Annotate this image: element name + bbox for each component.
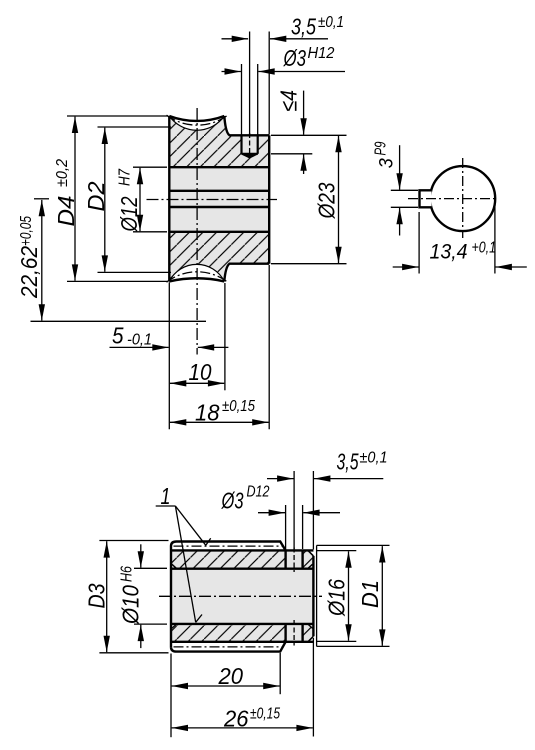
svg-text:Ø16: Ø16	[324, 579, 350, 617]
throat crescent white bottom	[169, 264, 224, 281]
svg-text:-0,1: -0,1	[127, 332, 152, 349]
dim Ø10 H6	[134, 544, 167, 648]
svg-text:±0,1: ±0,1	[318, 14, 344, 31]
thread band white bottom	[171, 642, 286, 652]
svg-text:Ø23: Ø23	[314, 182, 340, 219]
cross hole centerlines dashed	[293, 548, 295, 573]
svg-text:D12: D12	[247, 484, 270, 501]
svg-text:1: 1	[161, 483, 171, 509]
hatch band top	[171, 550, 313, 568]
svg-text:≤4: ≤4	[276, 90, 302, 112]
worm body gray silhouette	[171, 542, 313, 652]
dim Ø12 H7	[133, 167, 167, 232]
svg-text:P9: P9	[373, 141, 390, 155]
dim D1	[317, 545, 390, 646]
dim 20	[172, 653, 281, 694]
dim 3 P9	[391, 145, 418, 235]
dim D3	[99, 541, 168, 653]
dim D4 +-0,2	[67, 116, 168, 281]
svg-text:+0,1: +0,1	[472, 240, 497, 257]
throat pitch arc dash-dot bottom	[167, 272, 228, 282]
dim Ø16	[317, 551, 357, 642]
circle centerline horizontal	[408, 198, 498, 200]
dim Ø23	[271, 136, 347, 264]
dim D2	[98, 127, 172, 272]
svg-text:3,5: 3,5	[291, 14, 316, 40]
bore chamfer lines	[172, 564, 313, 628]
dim 18 +-0,15	[169, 265, 269, 429]
svg-text:H12: H12	[308, 45, 335, 62]
svg-text:5: 5	[112, 323, 124, 349]
svg-text:±0,2: ±0,2	[54, 159, 71, 187]
pitch dash-dot lines	[174, 545, 284, 547]
hatched band top	[169, 116, 269, 167]
svg-text:Ø10: Ø10	[118, 585, 144, 625]
dim Ø3 D12 bottom view	[258, 505, 340, 549]
bore chamfer voids gray	[171, 564, 177, 569]
circle centerline vertical	[462, 158, 464, 238]
svg-text:D4: D4	[53, 196, 79, 227]
svg-text:±0,15: ±0,15	[222, 398, 255, 415]
svg-text:18: 18	[195, 400, 220, 426]
wheel horizontal centerline	[147, 199, 278, 201]
worm axis centerline	[159, 595, 322, 597]
svg-text:±0,1: ±0,1	[360, 450, 388, 467]
dim 3,5 +-0,1 top	[222, 32, 329, 135]
hole centerline dashed	[249, 133, 251, 157]
wheel vertical centerline	[196, 108, 198, 355]
dim 22,62 +0,05	[31, 199, 207, 321]
svg-text:±0,15: ±0,15	[250, 706, 280, 723]
svg-text:10: 10	[189, 359, 212, 385]
throat pitch arc dash-dot top	[167, 115, 228, 125]
svg-text:D3: D3	[84, 583, 110, 608]
svg-text:3,5: 3,5	[337, 449, 359, 475]
svg-text:D1: D1	[357, 580, 383, 608]
svg-text:26: 26	[223, 706, 249, 732]
svg-text:H7: H7	[117, 168, 134, 186]
svg-text:H6: H6	[119, 566, 136, 582]
thread band white top	[171, 542, 286, 551]
cross hole top interior gray	[286, 550, 303, 568]
dim Ø3 H12	[222, 64, 346, 135]
drill hole Ø3 walls	[242, 135, 258, 157]
svg-text:22,62: 22,62	[16, 246, 42, 299]
svg-text:13,4: 13,4	[430, 240, 468, 264]
dim 13,4 +0,1	[393, 203, 527, 274]
svg-text:20: 20	[218, 663, 244, 689]
dim 10	[170, 283, 225, 390]
svg-text:D2: D2	[83, 181, 109, 211]
dim 26 +-0,15	[171, 638, 313, 737]
svg-text:+0,05: +0,05	[18, 216, 35, 246]
worm outline thick	[171, 542, 313, 652]
cross hole bottom interior gray	[286, 624, 303, 642]
svg-text:3: 3	[376, 158, 398, 168]
circle	[430, 166, 495, 231]
keyway slot	[420, 190, 432, 207]
svg-text:Ø3: Ø3	[283, 45, 306, 71]
gear body gray silhouette	[169, 116, 269, 281]
svg-text:Ø3: Ø3	[221, 488, 244, 514]
dim 3,5 +-0,1 bottom view	[267, 471, 383, 550]
body outline thick	[169, 116, 269, 281]
drill hole interior gray	[242, 135, 258, 157]
dim 5 -0,1	[110, 346, 229, 348]
hatched band bottom	[169, 232, 269, 282]
dim &lt;=4 depth	[271, 91, 347, 174]
hatch band bottom	[171, 624, 313, 642]
throat crescent white top	[169, 116, 224, 130]
svg-text:Ø12: Ø12	[116, 196, 142, 232]
